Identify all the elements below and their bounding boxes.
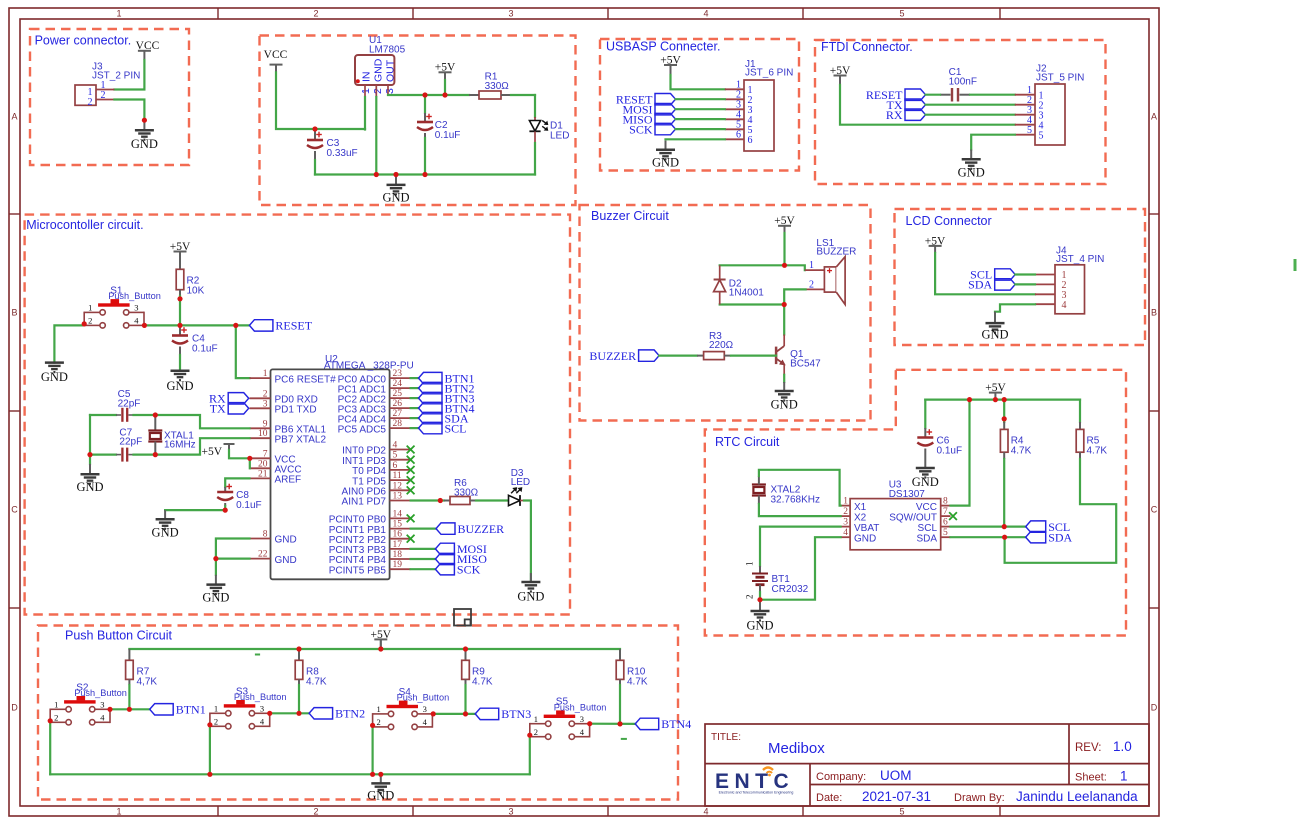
svg-text:C: C	[1151, 505, 1158, 515]
svg-text:SDA: SDA	[968, 278, 992, 292]
svg-text:GND: GND	[367, 789, 394, 803]
svg-text:18: 18	[393, 550, 403, 560]
svg-text:19: 19	[393, 560, 403, 570]
svg-text:5: 5	[943, 528, 948, 538]
svg-text:0.1uF: 0.1uF	[435, 130, 461, 141]
svg-text:3: 3	[508, 9, 513, 19]
svg-text:8: 8	[943, 497, 948, 507]
svg-text:27: 27	[393, 409, 403, 419]
svg-text:4: 4	[703, 807, 708, 817]
svg-text:100nF: 100nF	[949, 76, 977, 87]
svg-text:23: 23	[393, 369, 403, 379]
svg-text:Push_Button: Push_Button	[397, 693, 450, 703]
svg-text:+5V: +5V	[660, 55, 681, 67]
svg-text:GND: GND	[275, 535, 297, 546]
svg-text:3: 3	[263, 399, 268, 409]
svg-text:JST_2 PIN: JST_2 PIN	[92, 71, 140, 82]
svg-text:1: 1	[377, 704, 381, 714]
svg-text:3: 3	[260, 704, 264, 714]
svg-text:2: 2	[745, 595, 755, 600]
svg-text:B: B	[1151, 308, 1157, 318]
svg-text:GND: GND	[981, 328, 1008, 342]
svg-text:A: A	[1151, 112, 1157, 122]
svg-text:22: 22	[258, 550, 268, 560]
svg-text:2: 2	[313, 807, 318, 817]
svg-text:4: 4	[260, 717, 265, 727]
svg-text:22pF: 22pF	[118, 398, 141, 409]
svg-text:12: 12	[393, 481, 403, 491]
svg-text:SCL: SCL	[445, 421, 467, 435]
svg-text:BUZZER: BUZZER	[458, 522, 505, 536]
svg-text:Buzzer Circuit: Buzzer Circuit	[591, 209, 669, 223]
svg-text:14: 14	[393, 509, 403, 519]
svg-text:1: 1	[1120, 769, 1128, 784]
svg-text:1: 1	[214, 704, 218, 714]
svg-text:Power connector.: Power connector.	[35, 34, 132, 48]
svg-text:SDA: SDA	[1048, 530, 1072, 544]
svg-text:GND: GND	[76, 480, 103, 494]
svg-text:6: 6	[736, 130, 741, 141]
svg-text:BTN4: BTN4	[661, 717, 691, 731]
svg-text:Microcontoller circuit.: Microcontoller circuit.	[26, 218, 143, 232]
svg-text:9: 9	[263, 419, 268, 429]
svg-text:+5V: +5V	[170, 241, 191, 253]
svg-text:GND: GND	[854, 533, 876, 544]
svg-text:GND: GND	[202, 591, 229, 605]
svg-text:1: 1	[54, 700, 58, 710]
svg-text:GND: GND	[275, 555, 297, 566]
svg-text:GND: GND	[771, 398, 798, 412]
svg-text:1N4001: 1N4001	[729, 288, 764, 299]
svg-text:21: 21	[258, 469, 268, 479]
svg-text:BTN2: BTN2	[335, 707, 365, 721]
svg-text:C: C	[11, 505, 18, 515]
svg-text:2: 2	[263, 389, 268, 399]
svg-text:IN: IN	[361, 72, 373, 83]
svg-text:3: 3	[843, 518, 848, 528]
svg-text:+5V: +5V	[435, 62, 456, 74]
svg-text:BUZZER: BUZZER	[816, 247, 856, 258]
svg-text:Sheet:: Sheet:	[1075, 772, 1107, 784]
svg-text:4,7K: 4,7K	[137, 676, 158, 687]
svg-text:5: 5	[899, 9, 904, 19]
svg-text:4.7K: 4.7K	[472, 676, 493, 687]
svg-text:1: 1	[809, 260, 814, 271]
svg-text:AIN1 PD7: AIN1 PD7	[342, 497, 387, 508]
svg-text:8: 8	[263, 530, 268, 540]
svg-text:22pF: 22pF	[119, 437, 142, 448]
svg-text:GND: GND	[746, 619, 773, 633]
svg-text:4.7K: 4.7K	[1087, 445, 1108, 456]
svg-text:FTDI Connector.: FTDI Connector.	[821, 40, 913, 54]
svg-text:16MHz: 16MHz	[164, 440, 196, 451]
svg-text:Date:: Date:	[816, 792, 842, 804]
svg-text:RX: RX	[886, 108, 903, 122]
svg-text:Company:: Company:	[816, 771, 866, 783]
svg-text:JST_4 PIN: JST_4 PIN	[1056, 254, 1104, 265]
svg-text:15: 15	[393, 520, 403, 530]
svg-text:7: 7	[943, 507, 948, 517]
svg-text:REV:: REV:	[1075, 742, 1101, 754]
svg-text:JST_6 PIN: JST_6 PIN	[745, 68, 793, 79]
svg-text:RESET: RESET	[275, 319, 312, 333]
svg-text:4: 4	[393, 441, 398, 451]
svg-text:6: 6	[748, 135, 753, 146]
svg-text:26: 26	[393, 399, 403, 409]
svg-text:0.33uF: 0.33uF	[327, 148, 358, 159]
svg-text:VCC: VCC	[916, 502, 937, 513]
svg-text:Push_Button: Push_Button	[108, 291, 161, 301]
svg-text:4: 4	[703, 9, 708, 19]
svg-text:GND: GND	[166, 379, 193, 393]
svg-text:1: 1	[116, 9, 121, 19]
svg-text:B: B	[11, 308, 17, 318]
svg-text:2: 2	[88, 316, 92, 326]
svg-text:3: 3	[384, 88, 396, 94]
svg-text:5: 5	[1039, 130, 1044, 141]
svg-text:16: 16	[393, 530, 403, 540]
svg-text:2: 2	[101, 90, 106, 101]
svg-text:3: 3	[423, 704, 427, 714]
svg-text:Drawn By:: Drawn By:	[954, 792, 1005, 804]
svg-text:5: 5	[899, 807, 904, 817]
svg-text:BC547: BC547	[790, 359, 821, 370]
svg-text:0.1uF: 0.1uF	[192, 344, 218, 355]
svg-text:11: 11	[393, 471, 402, 481]
svg-text:2021-07-31: 2021-07-31	[862, 789, 931, 804]
svg-text:BTN1: BTN1	[176, 703, 206, 717]
svg-text:GND: GND	[131, 137, 158, 151]
svg-text:1: 1	[263, 369, 268, 379]
svg-text:PD1 TXD: PD1 TXD	[275, 405, 317, 416]
svg-text:USBASP Connecter.: USBASP Connecter.	[606, 40, 720, 54]
svg-text:SCK: SCK	[629, 122, 653, 136]
svg-text:TITLE:: TITLE:	[711, 732, 741, 743]
svg-text:VBAT: VBAT	[854, 523, 879, 534]
svg-text:4: 4	[134, 316, 139, 326]
svg-text:13: 13	[393, 492, 403, 502]
svg-text:+5V: +5V	[830, 65, 851, 77]
svg-text:LCD Connector: LCD Connector	[906, 214, 992, 228]
svg-text:7: 7	[263, 449, 268, 459]
svg-text:0.1uF: 0.1uF	[236, 500, 262, 511]
svg-text:RTC Circuit: RTC Circuit	[715, 435, 780, 449]
svg-text:D: D	[11, 703, 18, 713]
svg-text:PC6 RESET#: PC6 RESET#	[275, 374, 337, 385]
svg-text:10: 10	[258, 429, 268, 439]
svg-text:1: 1	[534, 714, 538, 724]
svg-text:2: 2	[54, 713, 58, 723]
svg-text:GND: GND	[373, 58, 385, 82]
svg-text:SCL: SCL	[918, 523, 938, 534]
svg-text:28: 28	[393, 419, 403, 429]
svg-text:GND: GND	[652, 156, 679, 170]
svg-text:TX: TX	[210, 402, 226, 416]
svg-text:2: 2	[214, 717, 218, 727]
svg-text:UOM: UOM	[880, 768, 912, 783]
svg-text:32.768KHz: 32.768KHz	[771, 495, 820, 506]
svg-text:4: 4	[580, 727, 585, 737]
svg-text:5: 5	[1027, 125, 1032, 136]
svg-text:10K: 10K	[187, 285, 205, 296]
svg-text:1: 1	[88, 303, 92, 313]
svg-text:1: 1	[843, 497, 848, 507]
svg-text:A: A	[11, 112, 17, 122]
svg-text:GND: GND	[958, 166, 985, 180]
svg-text:2: 2	[809, 279, 814, 290]
svg-text:Janindu Leelananda: Janindu Leelananda	[1016, 789, 1138, 804]
svg-text:4.7K: 4.7K	[306, 676, 327, 687]
svg-text:+5V: +5V	[774, 215, 795, 227]
svg-text:Push_Button: Push_Button	[74, 688, 127, 698]
svg-text:330Ω: 330Ω	[454, 487, 479, 498]
svg-text:+5V: +5V	[201, 446, 222, 458]
svg-text:Push_Button: Push_Button	[234, 692, 287, 702]
svg-text:2: 2	[534, 727, 538, 737]
svg-text:GND: GND	[152, 526, 179, 540]
svg-text:VCC: VCC	[136, 40, 160, 52]
svg-text:X2: X2	[854, 512, 867, 523]
svg-text:2: 2	[313, 9, 318, 19]
svg-text:2: 2	[88, 97, 93, 108]
svg-text:24: 24	[393, 379, 403, 389]
svg-text:+5V: +5V	[985, 382, 1006, 394]
svg-text:D: D	[1151, 703, 1158, 713]
svg-text:6: 6	[393, 461, 398, 471]
svg-text:1: 1	[360, 88, 372, 94]
svg-text:LM7805: LM7805	[369, 44, 406, 55]
svg-text:220Ω: 220Ω	[709, 340, 734, 351]
svg-text:GND: GND	[912, 475, 939, 489]
svg-text:4: 4	[100, 713, 105, 723]
svg-text:PCINT5 PB5: PCINT5 PB5	[329, 565, 387, 576]
svg-text:4.7K: 4.7K	[1011, 445, 1032, 456]
svg-text:+5V: +5V	[371, 629, 392, 641]
svg-text:LED: LED	[511, 477, 530, 488]
svg-text:+5V: +5V	[925, 235, 946, 247]
svg-text:SQW/OUT: SQW/OUT	[889, 512, 937, 523]
svg-text:Push Button Circuit: Push Button Circuit	[65, 629, 173, 643]
svg-text:5: 5	[393, 451, 398, 461]
svg-text:4: 4	[1062, 300, 1067, 311]
svg-text:SDA: SDA	[916, 533, 937, 544]
svg-text:GND: GND	[41, 370, 68, 384]
svg-text:4.7K: 4.7K	[627, 676, 648, 687]
svg-text:3: 3	[100, 700, 104, 710]
svg-text:Push_Button: Push_Button	[554, 703, 607, 713]
svg-text:2: 2	[372, 88, 384, 94]
svg-text:AREF: AREF	[275, 475, 302, 486]
svg-text:BUZZER: BUZZER	[589, 349, 636, 363]
svg-text:1.0: 1.0	[1113, 739, 1132, 754]
svg-text:2: 2	[377, 717, 381, 727]
svg-text:PB7 XTAL2: PB7 XTAL2	[275, 434, 327, 445]
svg-text:330Ω: 330Ω	[485, 81, 510, 92]
svg-text:20: 20	[258, 459, 268, 469]
svg-text:3: 3	[580, 714, 584, 724]
svg-text:LED: LED	[550, 131, 569, 142]
svg-text:Medibox: Medibox	[768, 740, 825, 757]
svg-text:GND: GND	[382, 191, 409, 205]
svg-text:25: 25	[393, 389, 403, 399]
svg-text:17: 17	[393, 540, 403, 550]
svg-text:GND: GND	[517, 590, 544, 604]
svg-text:BTN3: BTN3	[501, 707, 531, 721]
svg-text:2: 2	[843, 507, 848, 517]
svg-text:1: 1	[116, 807, 121, 817]
svg-text:PC5 ADC5: PC5 ADC5	[338, 424, 387, 435]
svg-text:CR2032: CR2032	[772, 584, 809, 595]
svg-text:JST_5 PIN: JST_5 PIN	[1036, 73, 1084, 84]
svg-text:4: 4	[423, 717, 428, 727]
svg-text:Electronic and Telecommunicati: Electronic and Telecommunication Enginee…	[719, 791, 794, 795]
svg-text:3: 3	[134, 303, 138, 313]
svg-text:4: 4	[843, 528, 848, 538]
svg-text:DS1307: DS1307	[889, 489, 926, 500]
svg-text:1: 1	[745, 562, 755, 567]
svg-text:OUT: OUT	[384, 59, 396, 82]
svg-text:X1: X1	[854, 502, 867, 513]
svg-text:SCK: SCK	[457, 562, 481, 576]
svg-text:3: 3	[508, 807, 513, 817]
svg-text:VCC: VCC	[264, 49, 288, 61]
svg-text:0.1uF: 0.1uF	[937, 446, 963, 457]
svg-text:6: 6	[943, 518, 948, 528]
